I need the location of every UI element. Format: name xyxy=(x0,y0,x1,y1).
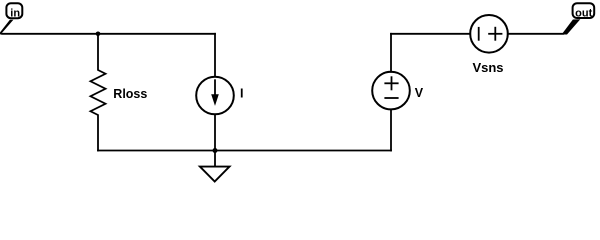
voltage source Vsns minus bar xyxy=(478,28,480,40)
voltage source V circle xyxy=(372,72,410,110)
svg-text:in: in xyxy=(10,7,20,19)
voltage source V top stub xyxy=(390,34,392,72)
current source I circle xyxy=(196,77,234,115)
svg-text:I: I xyxy=(240,86,243,100)
voltage source V minus sign xyxy=(385,97,397,99)
resistor Rloss xyxy=(91,34,106,151)
wire top-right from V to Vsns xyxy=(391,33,470,35)
wire bottom xyxy=(98,150,391,152)
ground triangle xyxy=(200,167,230,182)
voltage source Vsns plus sign xyxy=(489,33,501,35)
svg-text:V: V xyxy=(415,86,424,100)
svg-text:Rloss: Rloss xyxy=(113,87,147,101)
svg-text:out: out xyxy=(575,7,592,19)
svg-text:Vsns: Vsns xyxy=(472,60,503,75)
voltage source V plus sign xyxy=(385,82,397,84)
wire from Vsns to out flag xyxy=(508,33,563,35)
net flag out xyxy=(562,3,595,34)
junction dot at ground node xyxy=(213,148,218,153)
ground stub xyxy=(214,151,216,167)
net flag in xyxy=(0,3,22,34)
current source I bottom stub xyxy=(214,115,216,151)
voltage source Vsns circle xyxy=(470,15,508,53)
voltage source V bottom stub xyxy=(390,110,392,151)
current source I top stub xyxy=(214,34,216,77)
wire top-left from in flag to current source xyxy=(2,33,215,35)
node A junction dot xyxy=(96,32,101,37)
current source I arrow xyxy=(214,80,216,98)
